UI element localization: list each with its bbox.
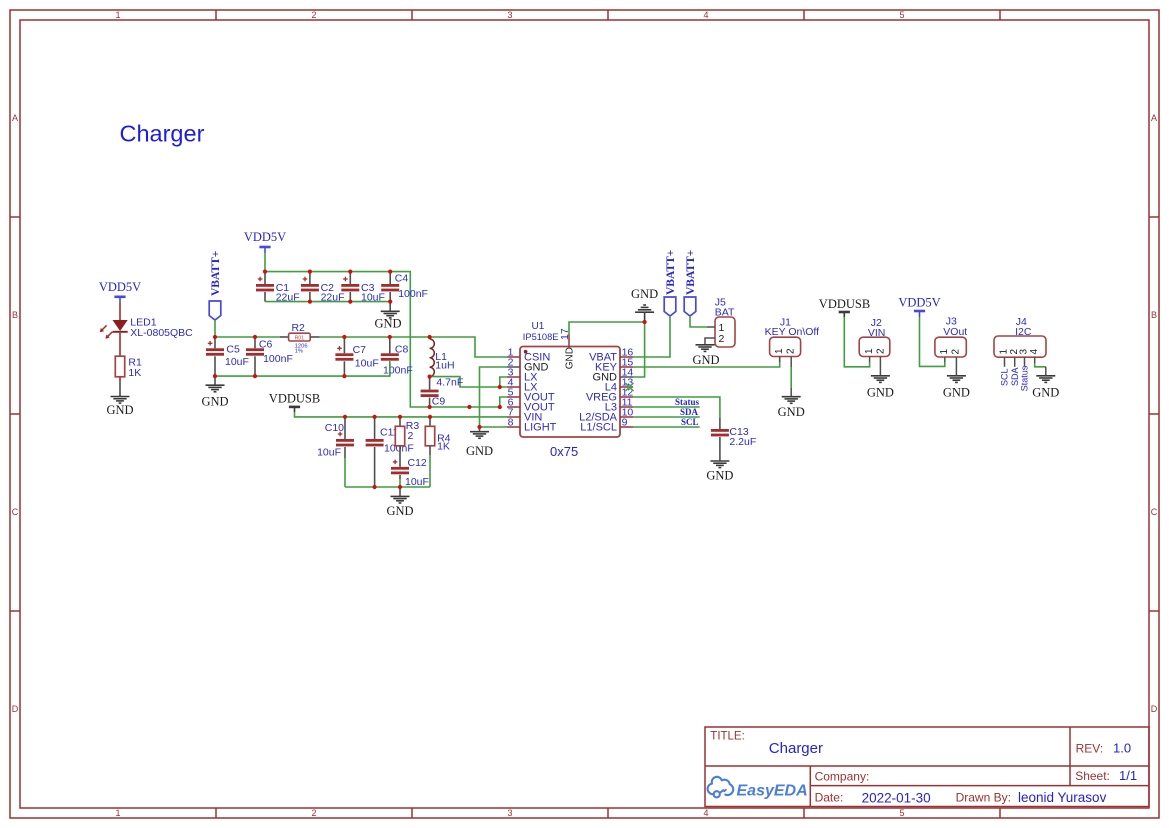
ground GND (J5) xyxy=(692,345,719,367)
pin 6 VOUT (U1 left) xyxy=(507,396,555,413)
frame column labels xyxy=(115,10,904,818)
net flag VDDUSB xyxy=(269,392,320,412)
capacitor C2 22uF xyxy=(301,272,345,304)
svg-text:10uF: 10uF xyxy=(317,447,341,459)
connector J2 VIN xyxy=(859,317,890,375)
svg-text:1.0: 1.0 xyxy=(1113,741,1131,756)
LED LED1 XL-0805QBC xyxy=(100,317,193,339)
svg-text:9: 9 xyxy=(622,416,628,428)
ground GND (cap bank) xyxy=(374,311,401,330)
svg-text:2: 2 xyxy=(951,349,962,355)
svg-text:LIGHT: LIGHT xyxy=(524,422,557,434)
wire VDD5V to J3 pin1 xyxy=(920,317,945,366)
net flag VDD5V (J3) xyxy=(898,296,940,318)
wire to chip ground xyxy=(479,427,481,432)
ground GND (C5) xyxy=(201,385,228,408)
frame row labels xyxy=(12,113,1158,714)
svg-text:1%: 1% xyxy=(295,348,303,354)
title block xyxy=(705,727,1149,807)
svg-text:VBATT+: VBATT+ xyxy=(665,250,677,295)
connector J1 KEY On\Off xyxy=(765,316,820,362)
pin 2 GND (U1 left) xyxy=(507,356,549,373)
svg-text:VDDUSB: VDDUSB xyxy=(819,297,870,311)
pin 10 L2/SDA (U1 right) xyxy=(579,406,633,423)
svg-text:EasyEDA: EasyEDA xyxy=(737,783,808,800)
svg-text:D: D xyxy=(1151,704,1158,714)
svg-text:GND: GND xyxy=(386,504,413,518)
svg-text:4.7nF: 4.7nF xyxy=(436,377,463,389)
svg-text:I2C: I2C xyxy=(1015,326,1032,338)
svg-text:VOut: VOut xyxy=(943,326,967,338)
svg-text:10uF: 10uF xyxy=(355,358,379,370)
pin 14 GND (U1 right) xyxy=(593,366,634,383)
op-amp U1 IP5108E body xyxy=(520,321,620,459)
svg-text:10uF: 10uF xyxy=(225,356,249,368)
pin 1 CSIN (U1 left) xyxy=(507,346,550,363)
svg-text:Sheet:: Sheet: xyxy=(1075,769,1110,783)
capacitor C6 100nF xyxy=(246,337,293,376)
wire bottom rail C5-C8 xyxy=(215,361,390,376)
pin 9 L1/SCL (U1 right) xyxy=(580,416,633,433)
svg-text:1: 1 xyxy=(939,349,950,355)
capacitor C9 4.7nF xyxy=(421,377,464,408)
svg-text:1uH: 1uH xyxy=(435,360,454,372)
svg-text:GND: GND xyxy=(565,347,576,369)
svg-text:B: B xyxy=(1151,310,1157,320)
wire L1 to LX pins xyxy=(430,377,507,387)
ground GND (U1 pins 2/8) xyxy=(466,432,493,458)
svg-text:5: 5 xyxy=(899,808,904,818)
wire C12 to ground xyxy=(399,487,401,496)
ground GND (C13) xyxy=(706,461,733,483)
svg-text:GND: GND xyxy=(867,386,894,400)
svg-text:GND: GND xyxy=(706,469,733,483)
svg-text:C7: C7 xyxy=(353,344,367,356)
wire J5 pin2 to ground xyxy=(705,338,707,345)
wire VBATT+ to J5 pin1 xyxy=(690,316,707,327)
pin 16 VBAT (U1 right) xyxy=(589,346,633,363)
wire pin17 to top ground xyxy=(569,322,645,334)
wire GND pin2 xyxy=(480,367,508,427)
svg-text:BAT: BAT xyxy=(715,306,735,318)
svg-text:C4: C4 xyxy=(395,272,409,284)
capacitor C1 22uF xyxy=(256,272,300,304)
wire VDDUSB rail to VIN xyxy=(295,412,508,417)
wire VOUT pin5 stub xyxy=(500,397,507,407)
svg-text:GND: GND xyxy=(692,353,719,367)
net flag VDD5V (LED branch) xyxy=(99,280,141,303)
svg-text:2: 2 xyxy=(786,348,797,354)
svg-text:C10: C10 xyxy=(325,422,344,434)
svg-text:A: A xyxy=(1151,113,1157,123)
svg-text:R01: R01 xyxy=(295,336,304,342)
svg-text:Company:: Company: xyxy=(815,770,870,784)
svg-text:SDA: SDA xyxy=(1010,367,1020,386)
wire VBATT+ to rail xyxy=(214,320,216,337)
resistor R4 1K xyxy=(425,417,450,453)
svg-text:VBATT+: VBATT+ xyxy=(210,251,222,296)
wire mid rail right to CSIN xyxy=(320,337,507,357)
resistor R3 2 xyxy=(395,417,419,446)
wire VREG pin12 to C13 xyxy=(633,397,720,418)
svg-text:SDA: SDA xyxy=(680,407,699,417)
pin 17 GND (U1 top) xyxy=(559,328,576,369)
pin 12 VREG (U1 right) xyxy=(586,386,634,403)
net flag VBATT+ (left) xyxy=(209,251,222,320)
capacitor C4 100nF xyxy=(381,272,428,302)
wire mid rail left (VBATT+) xyxy=(215,336,280,338)
no-connect X on pin 13 L4 xyxy=(626,383,634,391)
svg-text:SCL: SCL xyxy=(681,417,699,427)
svg-text:C: C xyxy=(1151,507,1158,517)
svg-text:GND: GND xyxy=(374,317,401,331)
svg-text:GND: GND xyxy=(943,386,970,400)
svg-text:Status: Status xyxy=(675,397,700,407)
svg-text:2: 2 xyxy=(875,348,886,354)
pin 7 VIN (U1 left) xyxy=(507,406,542,423)
svg-text:2: 2 xyxy=(311,10,316,20)
capacitor C11 100nF xyxy=(366,417,414,487)
wire J1 pin2 to ground xyxy=(790,362,792,367)
svg-text:4: 4 xyxy=(1029,349,1040,355)
svg-text:KEY On\Off: KEY On\Off xyxy=(765,326,820,338)
svg-text:leonid Yurasov: leonid Yurasov xyxy=(1018,790,1107,805)
svg-text:GND: GND xyxy=(466,444,493,458)
svg-text:100nF: 100nF xyxy=(263,353,293,365)
svg-text:REV:: REV: xyxy=(1076,742,1104,756)
svg-text:Drawn By:: Drawn By: xyxy=(956,791,1011,805)
svg-text:TITLE:: TITLE: xyxy=(710,731,745,743)
wire L1/SCL pin9 net SCL xyxy=(633,426,700,428)
svg-text:C9: C9 xyxy=(432,395,446,407)
wire VDD5V to LED1 xyxy=(119,303,121,320)
ground GND (C12) xyxy=(386,496,413,518)
capacitor C10 10uF xyxy=(317,417,354,487)
wire bottom rail C1-C4 xyxy=(265,301,390,303)
svg-text:1/1: 1/1 xyxy=(1119,768,1137,783)
capacitor C13 2.2uF xyxy=(711,426,756,461)
connector J5 BAT xyxy=(707,296,735,347)
ground GND (top, flipped) xyxy=(631,287,658,322)
wire R3 to C12 xyxy=(399,446,401,467)
svg-text:IP5108E: IP5108E xyxy=(523,332,559,342)
svg-text:GND: GND xyxy=(106,403,133,417)
svg-text:Charger: Charger xyxy=(769,740,823,757)
svg-text:XL-0805QBC: XL-0805QBC xyxy=(130,327,193,339)
capacitor C12 10uF xyxy=(391,457,429,488)
wire L2/SDA pin10 net SDA xyxy=(633,416,700,418)
svg-text:VDD5V: VDD5V xyxy=(99,280,141,294)
svg-text:C5: C5 xyxy=(226,344,240,356)
svg-text:5: 5 xyxy=(899,10,904,20)
svg-text:2: 2 xyxy=(311,808,316,818)
svg-text:SCL: SCL xyxy=(1000,368,1010,386)
svg-text:3: 3 xyxy=(507,10,512,20)
wire J4 pin4 to ground xyxy=(1035,363,1046,367)
ground GND (LED branch) xyxy=(106,397,133,418)
inductor L1 1uH xyxy=(430,339,455,377)
svg-text:1K: 1K xyxy=(128,367,141,379)
wire L3 pin11 net Status xyxy=(633,406,700,408)
svg-text:3: 3 xyxy=(507,808,512,818)
svg-text:1K: 1K xyxy=(437,441,450,453)
svg-text:C8: C8 xyxy=(395,344,409,356)
svg-text:VDDUSB: VDDUSB xyxy=(269,392,320,406)
net flag VBATT+ (to J5) xyxy=(684,250,697,316)
wire R1 to ground xyxy=(119,377,121,382)
wire bottom rail C10-R4 xyxy=(345,486,430,488)
svg-text:C6: C6 xyxy=(259,338,273,350)
wire R4 to bottom rail xyxy=(429,446,431,455)
ground GND (J3) xyxy=(943,376,970,400)
wire VBAT pin16 xyxy=(633,316,670,357)
svg-text:2: 2 xyxy=(719,333,725,345)
wire LED1 to R1 xyxy=(119,333,121,356)
connector J4 I2C xyxy=(994,316,1046,367)
svg-text:R2: R2 xyxy=(291,322,305,334)
net flag VDDUSB (J2) xyxy=(819,297,870,317)
svg-text:C12: C12 xyxy=(408,457,427,469)
svg-text:1: 1 xyxy=(864,348,875,354)
svg-text:VIN: VIN xyxy=(868,327,886,339)
wire LX pin3 stub xyxy=(500,377,507,387)
pin 11 L3 (U1 right) xyxy=(605,396,633,413)
wire LIGHT pin8 xyxy=(480,426,508,428)
svg-text:2.2uF: 2.2uF xyxy=(729,436,756,448)
connector J3 VOut xyxy=(935,316,967,376)
wire C4 to ground xyxy=(389,302,391,312)
svg-text:A: A xyxy=(12,113,18,123)
svg-text:C: C xyxy=(12,507,19,517)
svg-text:2022-01-30: 2022-01-30 xyxy=(862,790,931,805)
svg-text:100nF: 100nF xyxy=(398,288,428,300)
svg-text:Status: Status xyxy=(1020,365,1030,391)
svg-text:VBATT+: VBATT+ xyxy=(685,250,697,295)
svg-text:Date:: Date: xyxy=(815,791,844,805)
svg-text:4: 4 xyxy=(703,10,708,20)
pin 4 LX (U1 left) xyxy=(507,376,538,393)
svg-text:100nF: 100nF xyxy=(383,365,413,377)
svg-text:B: B xyxy=(12,310,18,320)
capacitor C3 10uF xyxy=(341,272,385,304)
wire VDD5V down to top rail xyxy=(264,253,266,272)
net flag VBATT+ (to VBAT) xyxy=(664,250,677,316)
svg-text:1: 1 xyxy=(774,348,785,354)
wire down to pin14 xyxy=(633,322,645,377)
svg-text:VDD5V: VDD5V xyxy=(898,296,940,310)
ground GND (J1) xyxy=(778,397,805,420)
svg-text:1: 1 xyxy=(115,808,120,818)
svg-text:GND: GND xyxy=(1032,386,1059,400)
svg-text:2: 2 xyxy=(408,430,414,442)
svg-text:L1/SCL: L1/SCL xyxy=(580,422,617,434)
pin 5 VOUT (U1 left) xyxy=(507,386,555,403)
wire KEY pin15 to J1 xyxy=(633,357,780,368)
svg-text:0x75: 0x75 xyxy=(550,444,578,459)
svg-text:Charger: Charger xyxy=(120,121,205,147)
ground GND (J2) xyxy=(867,376,894,400)
svg-text:8: 8 xyxy=(508,416,514,428)
junction dots overlay xyxy=(213,270,647,490)
net flag VDD5V (cap bank) xyxy=(244,230,286,253)
svg-text:D: D xyxy=(12,704,19,714)
pin 13 L4 (U1 right) xyxy=(605,376,634,393)
svg-text:U1: U1 xyxy=(532,321,545,332)
resistor R1 1K xyxy=(115,356,142,379)
svg-text:VDD5V: VDD5V xyxy=(244,230,286,244)
capacitor C5 10uF xyxy=(206,337,249,376)
pin 8 LIGHT (U1 left) xyxy=(507,416,557,433)
capacitor C7 10uF xyxy=(335,337,378,376)
wire VDDUSB to J2 pin1 xyxy=(844,317,869,367)
pin 3 LX (U1 left) xyxy=(507,366,538,383)
capacitor C8 100nF xyxy=(381,337,413,377)
EasyEDA logo xyxy=(708,777,808,800)
svg-text:1: 1 xyxy=(115,10,120,20)
wire top rail C1-C4 xyxy=(265,272,500,407)
title block labels xyxy=(710,731,1137,806)
pin 15 KEY (U1 right) xyxy=(595,356,633,373)
wire C5 to ground xyxy=(214,376,216,385)
ground GND (J4) xyxy=(1032,376,1059,400)
svg-text:GND: GND xyxy=(778,405,805,419)
svg-text:GND: GND xyxy=(201,394,228,408)
svg-text:GND: GND xyxy=(631,287,658,301)
resistor R2 R01 1206 1% xyxy=(280,322,320,354)
svg-text:4: 4 xyxy=(703,808,708,818)
